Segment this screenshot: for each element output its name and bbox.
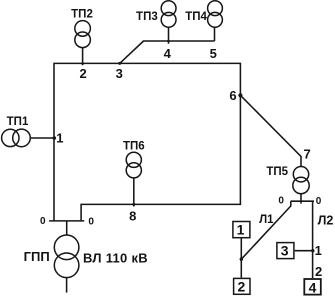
svg-text:3: 3	[281, 243, 289, 259]
svg-text:6: 6	[229, 88, 236, 103]
svg-text:7: 7	[303, 147, 310, 162]
svg-text:2: 2	[79, 66, 86, 81]
svg-text:1: 1	[315, 243, 322, 258]
svg-text:0: 0	[40, 216, 46, 227]
svg-text:ТП4: ТП4	[185, 11, 207, 23]
svg-text:4: 4	[309, 280, 317, 296]
svg-text:2: 2	[315, 264, 322, 279]
svg-text:ТП6: ТП6	[123, 140, 145, 152]
svg-text:8: 8	[129, 208, 136, 223]
svg-text:3: 3	[116, 66, 123, 81]
svg-text:2: 2	[238, 279, 246, 295]
svg-text:1: 1	[237, 222, 245, 238]
svg-text:ТП2: ТП2	[71, 9, 93, 21]
svg-text:0: 0	[316, 196, 322, 207]
svg-text:ГПП: ГПП	[24, 249, 50, 264]
svg-text:1: 1	[56, 130, 63, 145]
svg-text:ТП5: ТП5	[266, 166, 288, 178]
svg-text:ТП3: ТП3	[136, 11, 158, 23]
svg-text:0: 0	[278, 195, 284, 206]
svg-text:ВЛ 110 кВ: ВЛ 110 кВ	[83, 251, 148, 266]
svg-text:ТП1: ТП1	[7, 116, 29, 128]
svg-text:0: 0	[88, 217, 94, 228]
svg-text:5: 5	[210, 46, 217, 61]
svg-text:Л1: Л1	[259, 214, 274, 226]
svg-text:4: 4	[164, 46, 172, 61]
svg-text:Л2: Л2	[318, 213, 334, 227]
